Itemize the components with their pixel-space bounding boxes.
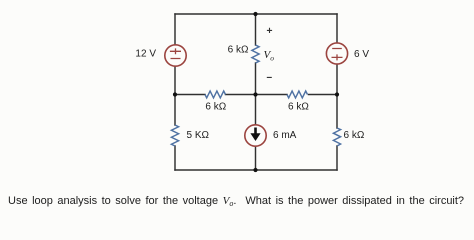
svg-text:5 KΩ: 5 KΩ xyxy=(187,130,210,141)
svg-text:6 V: 6 V xyxy=(354,49,369,60)
svg-text:6 mA: 6 mA xyxy=(273,130,297,141)
svg-text:6 kΩ: 6 kΩ xyxy=(205,102,226,113)
svg-text:6 kΩ: 6 kΩ xyxy=(228,44,249,55)
svg-text:12 V: 12 V xyxy=(135,49,156,60)
svg-text:o: o xyxy=(270,54,274,63)
svg-text:6 kΩ: 6 kΩ xyxy=(288,102,309,113)
svg-text:6 kΩ: 6 kΩ xyxy=(344,130,365,141)
